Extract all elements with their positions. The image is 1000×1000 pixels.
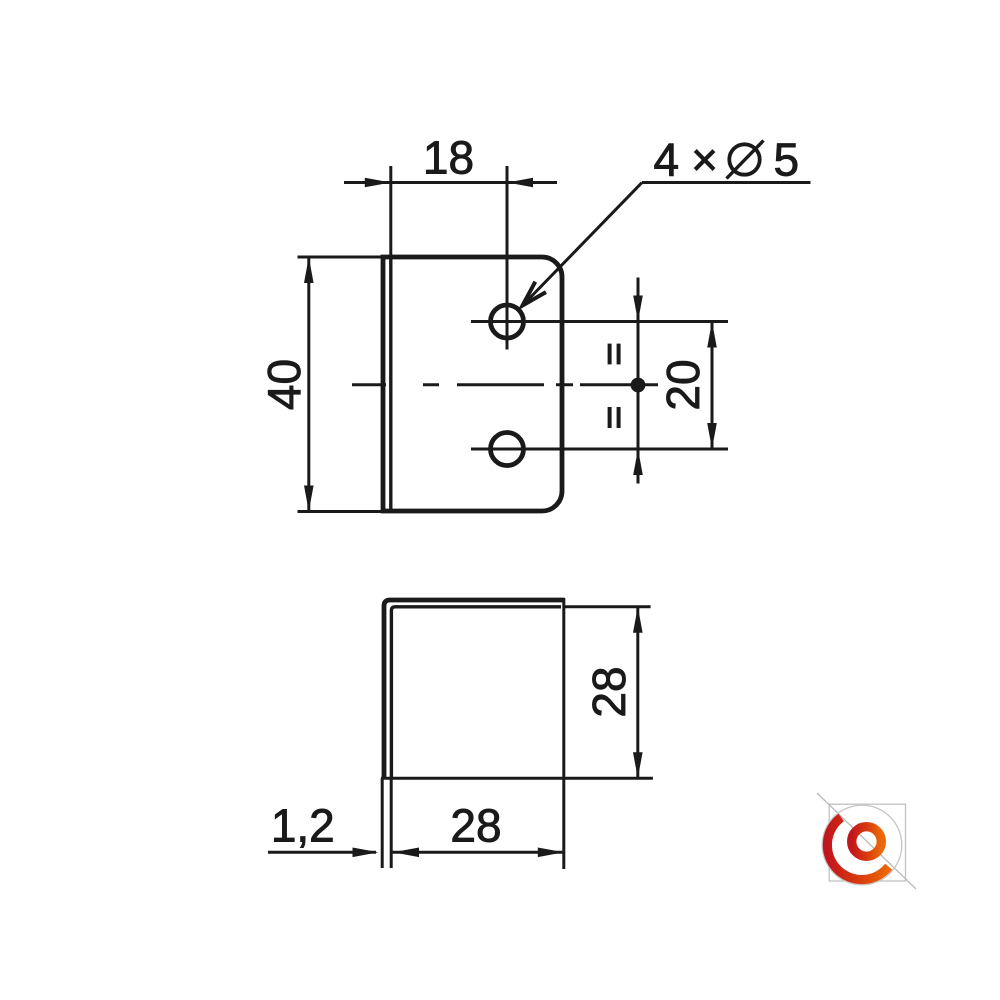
bend line	[389, 257, 392, 511]
svg-text:28: 28	[583, 666, 635, 717]
plate axis centerline dash-dot	[352, 383, 658, 386]
dim line 20	[711, 322, 714, 450]
svg-text:40: 40	[258, 359, 310, 410]
hole top horizontal centerline	[471, 320, 728, 323]
svg-text:28: 28	[450, 799, 501, 851]
diameter symbol slash	[727, 141, 764, 179]
extension top right	[565, 605, 651, 608]
equal mark lower	[608, 407, 612, 428]
svg-text:4: 4	[654, 134, 680, 186]
extension bottom long	[381, 777, 653, 780]
hole top vertical centerline	[506, 166, 509, 350]
diameter symbol circle	[729, 144, 759, 174]
svg-text:1,2: 1,2	[271, 799, 335, 851]
plate outline (top view)	[383, 257, 562, 511]
L profile inner line	[391, 607, 561, 778]
dim 40 extension top	[298, 256, 384, 259]
logo gray square	[829, 804, 905, 881]
thickness extension right	[390, 778, 393, 868]
logo donut ring	[852, 827, 882, 857]
leader open arrowhead	[523, 282, 546, 306]
hole bottom	[491, 433, 524, 466]
dim 40 extension bottom	[298, 510, 384, 513]
arrow down at top hole line	[633, 296, 643, 322]
leader line 4xD5	[523, 183, 643, 306]
dim line 28 bottom	[392, 851, 564, 854]
dim line 40	[307, 257, 310, 512]
dim line 1,2	[268, 851, 376, 854]
svg-text:5: 5	[774, 134, 800, 186]
arrow up at bottom hole line	[633, 449, 643, 475]
logo gray diagonal	[817, 793, 916, 889]
hole top	[491, 305, 524, 338]
dim line 28 vertical	[636, 607, 639, 779]
svg-text:×: ×	[691, 134, 718, 186]
svg-text:20: 20	[657, 359, 709, 410]
hole bottom horizontal centerline	[471, 448, 728, 451]
equal mark upper	[608, 344, 612, 365]
L profile outer line (bottom view)	[384, 600, 565, 778]
leader shelf	[642, 181, 811, 184]
logo outer arc	[827, 817, 888, 879]
right end cap extension	[562, 598, 565, 869]
logo gray circle	[822, 805, 902, 885]
node dot on centerline	[631, 378, 646, 393]
dim 18 extension line	[389, 166, 392, 257]
svg-text:18: 18	[423, 132, 474, 184]
thickness extension left	[381, 778, 384, 868]
dim line 18	[344, 181, 557, 184]
symmetry line vertical	[637, 278, 640, 484]
